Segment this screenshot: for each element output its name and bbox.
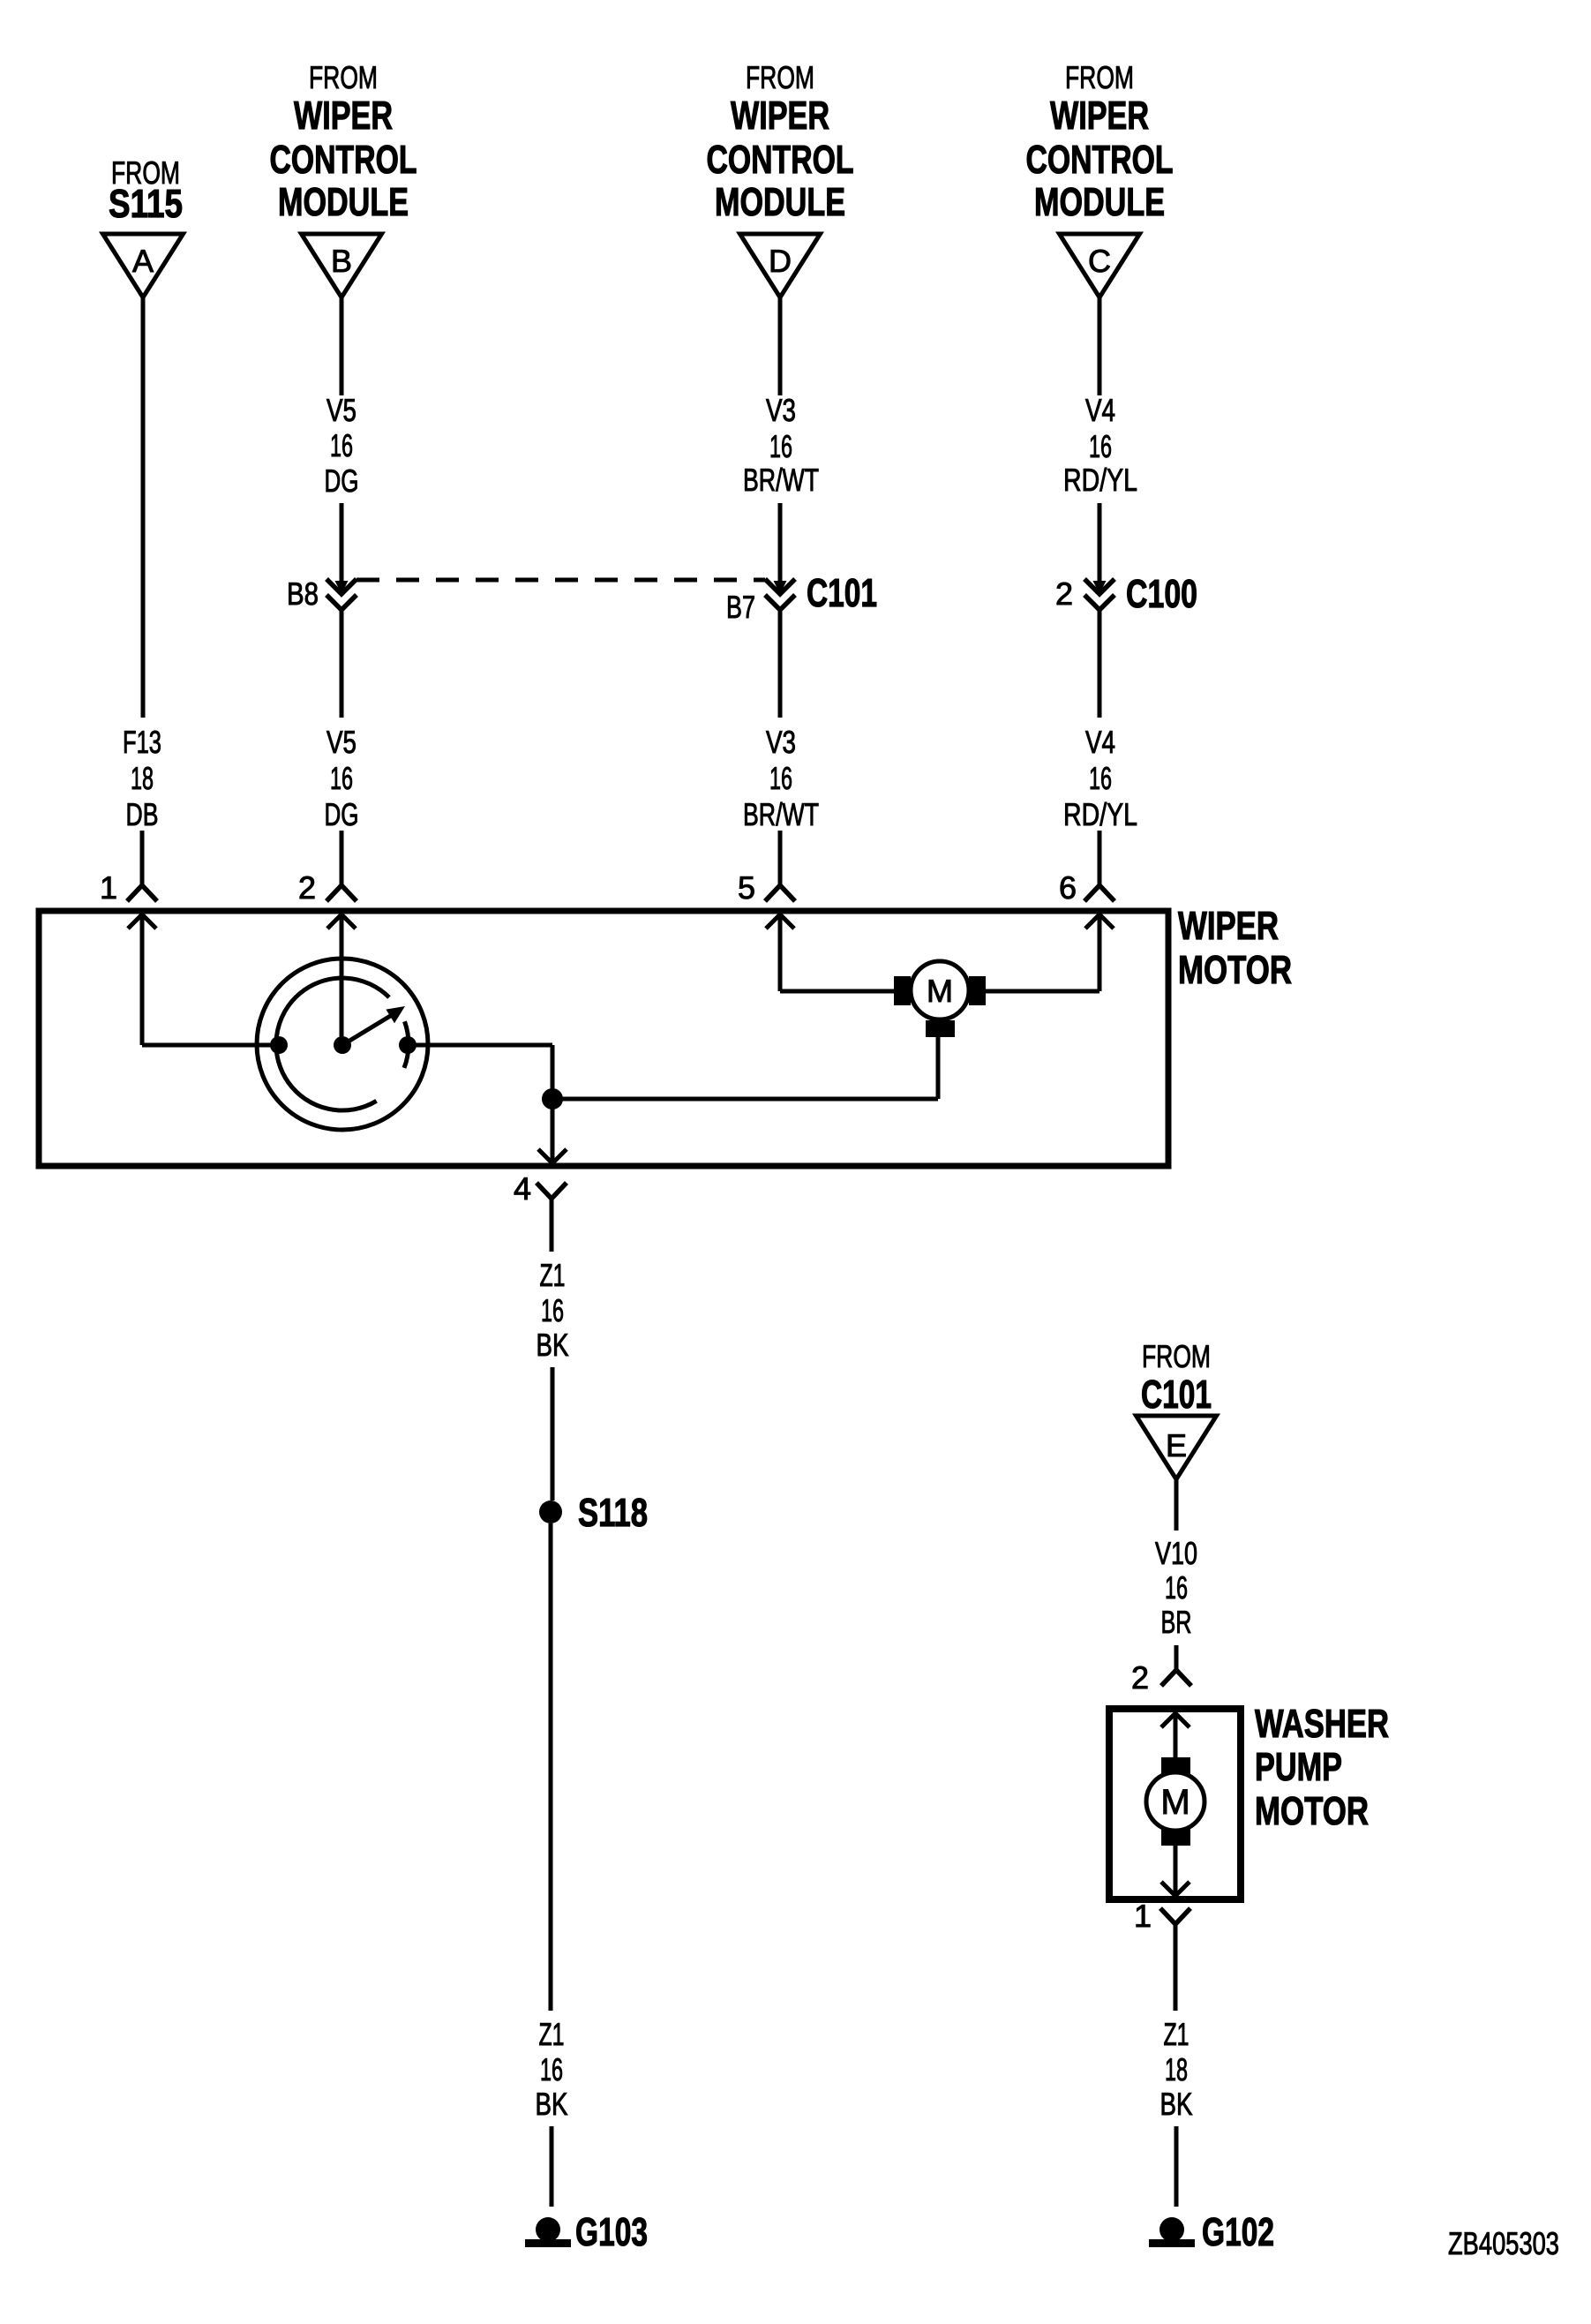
svg-text:Z1: Z1 <box>540 1257 566 1293</box>
wire: entry down to motor top brush <box>1174 1713 1178 1758</box>
pin 6 entry arrow <box>1085 914 1114 929</box>
svg-text:B: B <box>331 243 352 279</box>
svg-text:CONTROL: CONTROL <box>707 137 854 182</box>
svg-text:S115: S115 <box>109 181 183 226</box>
svg-text:16: 16 <box>769 428 792 464</box>
wire: pin 5 down inside box <box>778 914 783 991</box>
svg-text:16: 16 <box>769 760 792 796</box>
pin 5 connector chevron <box>765 885 795 901</box>
wire B: label DG to pin 2 <box>340 831 344 885</box>
connector triangle E <box>1137 1416 1217 1479</box>
in-line connector B8 (C101) <box>326 579 356 610</box>
svg-text:RD/YL: RD/YL <box>1063 462 1137 498</box>
connector triangle B <box>302 234 382 297</box>
motor right brush <box>969 976 986 1005</box>
dashed wire B8 to B7 (connector C101) <box>356 578 765 583</box>
svg-text:CONTROL: CONTROL <box>1026 137 1174 182</box>
wire label V5 16 DG (lower) <box>325 724 359 832</box>
wire label V4 16 RD/YL (upper) <box>1063 392 1137 498</box>
svg-text:16: 16 <box>541 1292 564 1328</box>
park switch left contact <box>270 1036 288 1054</box>
motor M (wiper) circle <box>911 961 969 1019</box>
svg-text:V4: V4 <box>1085 392 1115 428</box>
wire: pin 6 to motor right brush <box>986 989 1099 994</box>
svg-text:16: 16 <box>330 427 353 463</box>
wire: junction down to pin 4 <box>551 1099 555 1163</box>
svg-text:16: 16 <box>1089 428 1112 464</box>
park switch center contact <box>334 1036 351 1054</box>
wire E: triangle E down <box>1174 1479 1179 1531</box>
ground G103 <box>525 2217 571 2247</box>
park switch inner arc (right segment) <box>404 1021 409 1068</box>
svg-text:5: 5 <box>738 869 755 906</box>
svg-text:WIPER: WIPER <box>294 93 393 138</box>
svg-text:16: 16 <box>540 2051 563 2087</box>
svg-text:V10: V10 <box>1155 1535 1197 1571</box>
svg-text:M: M <box>1160 1783 1189 1822</box>
pin 5 entry arrow <box>766 914 794 929</box>
svg-text:V4: V4 <box>1085 724 1115 760</box>
svg-text:MOTOR: MOTOR <box>1178 947 1292 992</box>
washer pin 2 entry arrow <box>1161 1713 1189 1727</box>
wire: pin 1 down inside box <box>140 914 145 1045</box>
svg-text:4: 4 <box>514 1170 531 1207</box>
wire: pin 1 down to label Z1 <box>1174 1924 1178 2011</box>
label WASHER PUMP MOTOR <box>1255 1701 1389 1833</box>
motor left brush <box>894 976 911 1005</box>
svg-text:Z1: Z1 <box>1164 2016 1189 2052</box>
label FROM C101 <box>1141 1338 1212 1417</box>
svg-text:2: 2 <box>1131 1659 1149 1696</box>
svg-text:BR/WT: BR/WT <box>743 796 819 832</box>
svg-text:V3: V3 <box>766 724 796 760</box>
svg-text:FROM: FROM <box>1142 1338 1211 1374</box>
motor M (washer) circle <box>1146 1772 1205 1831</box>
svg-text:MODULE: MODULE <box>278 179 409 224</box>
washer motor bottom brush <box>1161 1829 1190 1846</box>
washer pin 1 exit arrow <box>1161 1882 1189 1896</box>
label FROM WIPER CONTROL MODULE (B) <box>270 59 417 224</box>
wire E: label BR to pin 2 <box>1174 1645 1179 1670</box>
svg-text:DG: DG <box>325 463 359 499</box>
svg-text:BK: BK <box>536 2086 568 2122</box>
wire C: connector to label V4 <box>1098 610 1102 718</box>
svg-text:DB: DB <box>126 796 159 832</box>
wire: pin 6 down inside box <box>1098 914 1102 991</box>
svg-text:CONTROL: CONTROL <box>270 137 417 182</box>
svg-text:FROM: FROM <box>309 59 378 95</box>
svg-text:BR/WT: BR/WT <box>743 462 819 498</box>
junction S-point dot <box>542 1088 563 1109</box>
wire D: label to connector B7 <box>778 503 783 583</box>
svg-text:F13: F13 <box>123 724 161 760</box>
connector triangle D <box>740 234 821 297</box>
wire B: connector B8 to label V5 <box>340 610 344 718</box>
wire A: label DB to pin 1 <box>140 831 145 885</box>
svg-text:C101: C101 <box>1141 1372 1212 1417</box>
svg-text:G102: G102 <box>1202 2209 1274 2254</box>
pin 2 entry arrow <box>327 914 356 929</box>
svg-text:BK: BK <box>537 1327 569 1363</box>
svg-text:6: 6 <box>1059 869 1077 906</box>
wire: junction to below motor <box>552 1097 938 1102</box>
svg-text:B8: B8 <box>287 575 319 612</box>
wire: label BK to ground G103 <box>550 2126 554 2207</box>
svg-text:MODULE: MODULE <box>1034 179 1165 224</box>
svg-text:MOTOR: MOTOR <box>1255 1788 1369 1833</box>
svg-text:V5: V5 <box>326 724 356 760</box>
wire label Z1 18 BK <box>1160 2016 1193 2122</box>
washer motor top brush <box>1161 1757 1190 1774</box>
svg-text:FROM: FROM <box>746 59 814 95</box>
park switch inner arc <box>276 978 389 1110</box>
svg-text:C: C <box>1088 243 1111 279</box>
wire B: triangle B down <box>340 297 344 395</box>
svg-text:C100: C100 <box>1126 571 1197 616</box>
park switch outer circle <box>257 959 428 1130</box>
svg-text:G103: G103 <box>575 2209 648 2254</box>
wire: label BK to ground G102 <box>1174 2126 1179 2207</box>
wire label V5 16 DG (upper) <box>325 392 359 499</box>
svg-text:18: 18 <box>1165 2051 1188 2087</box>
park switch right contact <box>399 1036 417 1054</box>
connector triangle C <box>1060 234 1140 297</box>
svg-text:FROM: FROM <box>1065 59 1134 95</box>
svg-text:18: 18 <box>131 760 154 796</box>
svg-text:2: 2 <box>1055 575 1073 612</box>
wire label Z1 16 BK (upper) <box>537 1257 569 1363</box>
pin 1 connector chevron <box>127 885 157 901</box>
svg-text:D: D <box>769 243 792 279</box>
wire label V3 16 BR/WT (upper) <box>743 392 819 498</box>
wire B: label DG to connector B8 <box>340 503 344 583</box>
wire: pin 2 down to park switch center <box>340 914 344 1040</box>
svg-text:16: 16 <box>330 760 353 796</box>
svg-text:B7: B7 <box>726 589 755 625</box>
svg-text:Z1: Z1 <box>539 2016 565 2052</box>
wire: label BK to splice S118 <box>551 1367 555 1500</box>
svg-text:1: 1 <box>100 869 117 906</box>
wire: pin 4 down <box>550 1199 554 1252</box>
svg-text:ZB405303: ZB405303 <box>1448 2225 1559 2261</box>
wire A: triangle A to label F13 <box>141 297 146 718</box>
svg-text:1: 1 <box>1134 1898 1152 1934</box>
svg-text:M: M <box>927 973 953 1009</box>
svg-text:V5: V5 <box>326 392 356 428</box>
svg-text:WIPER: WIPER <box>1178 903 1279 948</box>
svg-text:MODULE: MODULE <box>715 179 845 224</box>
wire: pin 5 to motor left brush <box>780 989 894 994</box>
wire label V4 16 RD/YL (lower) <box>1063 724 1137 832</box>
washer pin 2 connector chevron <box>1161 1670 1191 1686</box>
wire D: triangle D down <box>778 297 783 395</box>
svg-text:WIPER: WIPER <box>1050 93 1149 138</box>
connector triangle A <box>103 234 184 297</box>
in-line connector B7 (C101) <box>765 579 795 610</box>
label WIPER MOTOR <box>1178 903 1292 992</box>
svg-text:E: E <box>1166 1427 1187 1463</box>
svg-text:WIPER: WIPER <box>731 93 829 138</box>
wire label Z1 16 BK (lower) <box>536 2016 568 2122</box>
wire label V3 16 BR/WT (lower) <box>743 724 819 832</box>
label FROM WIPER CONTROL MODULE (C) <box>1026 59 1174 224</box>
label FROM WIPER CONTROL MODULE (D) <box>707 59 854 224</box>
wire: right contact to corner <box>408 1043 552 1048</box>
splice S118 dot <box>539 1500 562 1523</box>
washer pin 1 connector chevron <box>1160 1908 1190 1924</box>
ground G102 <box>1149 2217 1195 2247</box>
wire C: label to connector C100 <box>1098 503 1102 583</box>
pin 2 connector chevron <box>326 885 356 901</box>
wire label F13 18 DB <box>123 724 161 832</box>
pin 4 exit arrow <box>538 1149 567 1163</box>
wire: pin 1 to park switch left contact <box>142 1043 279 1048</box>
svg-text:PUMP: PUMP <box>1255 1744 1342 1789</box>
svg-text:16: 16 <box>1089 760 1112 796</box>
wire C: label to pin 6 <box>1098 831 1102 885</box>
svg-text:C101: C101 <box>807 570 877 615</box>
pin 4 connector chevron <box>537 1183 567 1199</box>
wire C: triangle C down <box>1098 297 1102 395</box>
svg-text:16: 16 <box>1165 1569 1188 1606</box>
wire label V10 16 BR <box>1155 1535 1197 1640</box>
svg-text:A: A <box>132 243 154 279</box>
svg-text:V3: V3 <box>766 392 796 428</box>
wire: corner down to junction <box>551 1045 555 1099</box>
wire D: label to pin 5 <box>778 831 783 885</box>
label FROM S115 <box>109 154 183 226</box>
in-line connector 2 (C100) <box>1084 579 1114 610</box>
svg-text:2: 2 <box>298 869 316 906</box>
pin 6 connector chevron <box>1084 885 1114 901</box>
wire D: connector to label V3 <box>778 610 783 718</box>
svg-text:DG: DG <box>325 796 359 832</box>
wire: S118 down to label Z1 <box>549 1523 553 2011</box>
svg-text:WASHER: WASHER <box>1255 1701 1389 1746</box>
svg-text:RD/YL: RD/YL <box>1063 796 1137 832</box>
motor bottom brush <box>926 1020 955 1037</box>
wiper motor box <box>39 911 1168 1166</box>
wire: up to motor bottom brush <box>936 1037 941 1099</box>
washer pump motor box <box>1109 1709 1241 1899</box>
svg-text:S118: S118 <box>578 1490 648 1535</box>
pin 1 entry arrow <box>128 914 156 929</box>
park switch wiper arm arrow <box>342 1006 405 1045</box>
wire: motor bottom to exit arrow <box>1174 1845 1178 1896</box>
svg-text:BK: BK <box>1160 2086 1193 2122</box>
svg-text:BR: BR <box>1161 1604 1192 1640</box>
